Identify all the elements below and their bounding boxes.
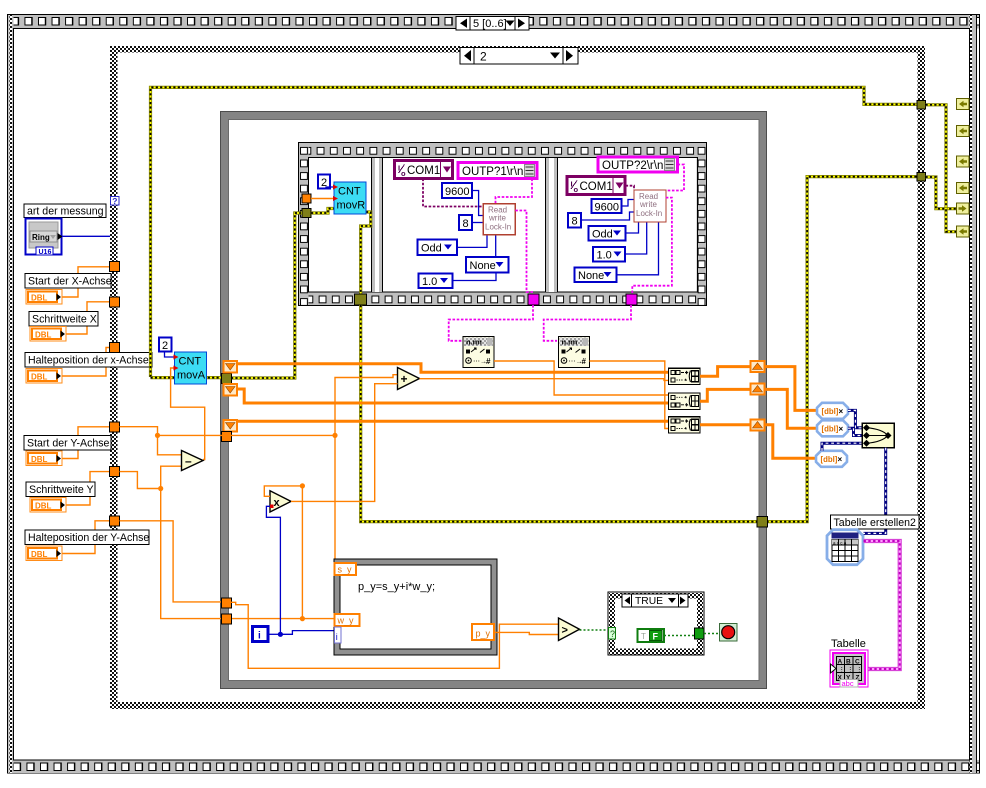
tunnel: boolean (TRUE case right border) <box>695 628 705 639</box>
wire: w_y branch to multiply input <box>264 486 302 496</box>
wire: Schrittweite Y down to w_y tunnel <box>161 489 222 619</box>
error wire: loop tunnel to flat sequence <box>231 213 302 378</box>
tunnel: string (flat seq bottom, frame 3) <box>626 294 637 305</box>
sequence local 6 <box>957 226 970 237</box>
wire: COM1 to subVI (VISA, frame 3) <box>626 186 635 190</box>
control: Start der X-Achse (DBL) <box>26 290 62 305</box>
ring constant 1.0 (frame 2) <box>419 274 453 289</box>
ring constant None (frame 2) <box>466 257 509 273</box>
svg-text:8: 8 <box>463 218 469 230</box>
tunnel: Halteposition Y (case border) <box>110 516 120 526</box>
wire: OUTP?2 to subVI (string, frame 3) <box>652 165 684 193</box>
constant 2 (before CNT movA) <box>159 338 172 353</box>
wire: build array 1 to right SR (thick) <box>700 367 751 377</box>
subVI: Read write Lock-In (frame 3) <box>634 190 666 222</box>
wire: SR2 out to convert 2 (thick) <box>765 389 818 428</box>
ring constant Odd (frame 2) <box>418 240 458 256</box>
svg-text:CNT: CNT <box>338 186 361 198</box>
svg-text:#: # <box>486 357 491 366</box>
wire: SR2 to build array 2 (thick) <box>237 389 669 403</box>
subVI: CNT movR <box>333 182 366 214</box>
svg-text:abc: abc <box>842 679 854 688</box>
VISA resource COM1 (frame 3) <box>567 177 625 195</box>
dynamic wire: convert 2 to merge <box>848 428 862 435</box>
wire: 8 to subVI (frame 3) <box>581 212 634 220</box>
svg-text:#: # <box>582 357 587 366</box>
subVI: CNT movA <box>174 352 207 384</box>
svg-text:TRUE: TRUE <box>635 596 663 607</box>
build array 1 <box>669 368 701 384</box>
svg-text:2: 2 <box>480 50 487 64</box>
tunnel: error (case right border, lower) <box>917 173 926 182</box>
error wire: CNT movR to bottom tunnel <box>361 212 371 296</box>
tunnel: Schrittweite X (case border) <box>110 297 120 307</box>
svg-text:CNT: CNT <box>179 356 202 368</box>
boolean constant F <box>638 629 665 642</box>
label: Tabelle erstellen2 <box>831 515 920 529</box>
control: Schrittweite X (DBL) <box>30 327 66 342</box>
sequence local 3 <box>957 156 970 167</box>
svg-text:DBL: DBL <box>35 331 52 340</box>
constant 2 (frame 1) <box>318 175 330 190</box>
dynamic wire: convert 1 to merge <box>848 410 862 427</box>
svg-text:⋯→: ⋯→ <box>569 359 583 366</box>
indicator: Tabelle (table) <box>830 650 868 688</box>
svg-text:2: 2 <box>162 340 168 352</box>
wire: 9600 to subVI (frame 3) <box>622 200 635 207</box>
svg-text:[dbl]: [dbl] <box>822 425 839 434</box>
svg-text:OUTP?1\r\n: OUTP?1\r\n <box>462 166 523 178</box>
svg-text:1.0: 1.0 <box>422 276 437 288</box>
tunnel: error (flat seq bottom border) <box>355 294 367 305</box>
merge signals node <box>862 423 894 448</box>
wire: SR3 to build array 3 (thick) <box>237 420 669 423</box>
svg-text:9600: 9600 <box>445 186 469 198</box>
control: Halteposition Y (DBL) <box>26 546 62 561</box>
svg-text:8: 8 <box>572 216 578 228</box>
ring constant None (frame 3) <box>575 268 617 283</box>
control label: Schrittweite Y <box>26 482 95 497</box>
wire: i to multiply and formula <box>266 506 335 637</box>
svg-text:movA: movA <box>177 370 206 382</box>
error wire: case tunnel 2 to sequence local 6 <box>926 177 958 232</box>
stop conditional terminal <box>720 624 738 642</box>
svg-text:U16: U16 <box>39 249 52 256</box>
svg-text:movR: movR <box>337 200 366 212</box>
case selector terminal ? <box>111 196 120 206</box>
wire: 2 to CNT movA <box>165 352 175 358</box>
svg-text:×: × <box>839 425 844 434</box>
svg-text:write: write <box>639 200 657 209</box>
wire: None to subVI (frame 2) <box>495 235 497 257</box>
svg-text:Odd: Odd <box>421 243 442 255</box>
tunnel: Start Y (case border) <box>110 422 120 432</box>
error wire: tunnel to CNT movR <box>311 209 334 214</box>
control label: Halteposition der x-Achse <box>25 353 152 368</box>
wire: Start Y tunnel into loop <box>120 427 336 436</box>
svg-text:COM1: COM1 <box>407 165 440 177</box>
svg-text:o: o <box>401 169 406 178</box>
wire: Halteposition x to tunnel <box>62 348 110 377</box>
tunnel: Start Y (loop left border) <box>222 432 232 442</box>
wire: 1.0 to subVI (frame 3) <box>625 222 647 254</box>
format node 2 (Fract/Exp String To Number) <box>559 337 590 368</box>
error wire: case to loop (left/top run) <box>151 87 918 377</box>
boolean wire: constant to tunnel <box>664 635 695 637</box>
wire: branch up to add input <box>335 375 398 436</box>
svg-text:Halteposition der x-Achse: Halteposition der x-Achse <box>28 355 149 367</box>
control label: Schrittweite X <box>29 312 98 327</box>
numeric constant 8 (frame 2) <box>459 215 472 230</box>
error wire: flat sequence bottom to loop right tunnel <box>361 305 758 522</box>
ring constant 1.0 (frame 3) <box>593 247 625 262</box>
svg-text:x: x <box>274 497 281 509</box>
svg-text:Schrittweite X: Schrittweite X <box>32 314 97 326</box>
convert to dynamic data 3 <box>816 451 847 467</box>
wire: w_y line tunnel B to formula <box>231 618 335 620</box>
svg-text:Schrittweite Y: Schrittweite Y <box>29 484 94 496</box>
svg-text:[dbl]: [dbl] <box>822 407 839 416</box>
sequence local 1 <box>957 99 970 110</box>
svg-text:DBL: DBL <box>35 502 52 511</box>
shift register left 1 <box>224 361 238 373</box>
wire: tunnel to CNT movR input <box>311 198 334 200</box>
svg-text:n.nn: n.nn <box>562 338 578 347</box>
wire: tunnel A to comparator (bottom run) <box>231 602 559 668</box>
svg-text:T: T <box>641 632 646 641</box>
svg-text:⋮: ⋮ <box>847 667 854 674</box>
case selector label "2" <box>460 48 578 65</box>
sequence local 2 <box>957 126 970 137</box>
wire: COM1 to subVI (VISA, frame 2) <box>423 179 483 207</box>
svg-text:C: C <box>855 659 860 666</box>
wire: branch down to s_y <box>334 435 336 563</box>
formula terminal w_y <box>335 614 360 626</box>
format node 1 (Fract/Exp String To Number) <box>463 337 494 368</box>
control label: Start der Y-Achse <box>24 436 111 451</box>
svg-text:DBL: DBL <box>31 294 48 303</box>
wire: build array 3 to right SR (thick) <box>700 423 751 426</box>
comparator greater-than <box>559 618 580 641</box>
numeric constant 9600 (frame 2) <box>442 183 472 198</box>
case structure (selector = 2) <box>110 46 925 709</box>
formula terminal s_y <box>335 563 357 575</box>
wire: vertical w_y riser <box>301 486 303 619</box>
build array 3 <box>669 417 701 433</box>
shift register right 1 <box>751 361 765 372</box>
wire: format node 1 out to build array 2 <box>494 361 669 395</box>
wire: SR1 out to convert 1 (thick) <box>765 367 818 411</box>
wire: Schrittweite X to tunnel <box>66 302 110 334</box>
dynamic wire: convert 3 to merge <box>822 443 862 451</box>
svg-text:o: o <box>574 185 579 194</box>
wire: Start X to tunnel <box>62 267 110 297</box>
wire: Start Y to tunnel <box>62 427 110 459</box>
wire: format node 2 out to build array 3 <box>590 361 669 429</box>
svg-text:>: > <box>562 625 568 637</box>
wire: subtract out to CNT movA <box>171 368 205 460</box>
svg-text:Halteposition der Y-Achse: Halteposition der Y-Achse <box>28 532 149 544</box>
svg-text:None: None <box>578 270 604 282</box>
tunnel: string (flat seq bottom, frame 2) <box>528 294 539 305</box>
wire: add out to build array 1 (thin) <box>420 379 669 381</box>
junction dot <box>300 616 305 621</box>
wire: Odd to subVI (frame 3) <box>626 222 639 233</box>
svg-text:9600: 9600 <box>595 202 619 214</box>
shift register left 2 <box>224 384 238 396</box>
tunnel: error (flat seq left border) <box>302 209 311 218</box>
wire: ring to case border <box>62 235 110 237</box>
tunnel: Schrittweite Y (case border) <box>110 467 120 477</box>
sequence local 5 (out) <box>957 203 970 214</box>
tunnel: A Halteposition Y (loop left border) <box>222 598 232 608</box>
svg-text:art der messung: art der messung <box>27 206 104 218</box>
svg-text:DBL: DBL <box>31 373 48 382</box>
svg-text:Start der Y-Achse: Start der Y-Achse <box>27 438 110 450</box>
wire: 2 to CNT movR <box>326 187 334 189</box>
sequence selector label "5 [0..6]" <box>456 17 529 31</box>
wire: multiply out up to add <box>291 384 398 502</box>
shift register right 3 <box>751 420 765 431</box>
wire: subVI out to bottom tunnel (string, frame 3) <box>632 198 672 297</box>
tunnel: error (loop right border) <box>757 517 768 528</box>
multiply node <box>270 491 291 512</box>
wire: build array 2 to right SR (thick) <box>700 389 751 401</box>
flat sequence structure (3 frames) <box>299 143 707 306</box>
sequence local 4 <box>957 183 970 194</box>
svg-text:Lock-In: Lock-In <box>485 223 511 232</box>
svg-text:write: write <box>488 214 506 223</box>
wire: Schrittweite Y to tunnel <box>66 472 110 505</box>
svg-text:OUTP?2\r\n: OUTP?2\r\n <box>602 160 663 172</box>
formula terminal p_y <box>472 624 494 640</box>
svg-text:w_y: w_y <box>337 616 355 626</box>
case TRUE selector label <box>622 594 688 607</box>
wire: Halteposition Y across to loop tunnel A <box>120 521 223 602</box>
numeric constant 8 (frame 3) <box>568 213 581 228</box>
wire: subVI out to bottom tunnel (string, frame 2) <box>515 211 533 298</box>
svg-text:Odd: Odd <box>592 229 613 241</box>
wire: OUTP?1 to subVI (string, frame 2) <box>496 179 533 204</box>
subVI: Read write Lock-In (frame 2) <box>483 204 515 235</box>
junction dot <box>300 483 305 488</box>
boolean wire: tunnel to stop terminal <box>704 633 720 635</box>
tunnel: B Schrittweite Y (loop left border) <box>222 614 232 624</box>
svg-text:None: None <box>470 260 496 272</box>
add node <box>398 368 420 390</box>
svg-text:s_y: s_y <box>338 565 353 575</box>
control label: art der messung <box>24 204 106 218</box>
express VI: Build Table <box>827 530 863 565</box>
string wire: tunnel to format node 1 <box>449 305 533 341</box>
svg-text:p_y: p_y <box>476 629 491 639</box>
svg-text:5 [0..6]: 5 [0..6] <box>473 18 507 30</box>
VISA resource COM1 (frame 2) <box>395 161 453 179</box>
wire: p_y to comparator <box>494 632 559 634</box>
wire: array SR1 to build array 1 (thick) <box>237 364 669 373</box>
wire: None to subVI (frame 3) <box>617 222 659 275</box>
control label: Halteposition der Y-Achse <box>25 530 149 545</box>
svg-text:⋯→: ⋯→ <box>473 359 487 366</box>
svg-text:⋮: ⋮ <box>839 667 846 674</box>
dynamic wire: merge to build table <box>864 448 886 534</box>
svg-text:?: ? <box>610 629 615 639</box>
convert to dynamic data 2 <box>817 420 848 436</box>
control: Schrittweite Y (DBL) <box>30 498 66 513</box>
svg-text:a c c a: a c c a <box>833 541 847 546</box>
svg-text:COM1: COM1 <box>580 181 613 193</box>
wire: to subtract input 2 <box>161 466 182 488</box>
string constant OUTP?2\r\n (frame 3) <box>598 157 678 172</box>
string constant OUTP?1\r\n (frame 2) <box>458 163 537 179</box>
build array 2 <box>669 393 701 409</box>
formula terminal i <box>335 627 342 643</box>
svg-text:Ring: Ring <box>32 233 50 242</box>
junction dot <box>158 486 163 491</box>
svg-text:p_y=s_y+i*w_y;: p_y=s_y+i*w_y; <box>358 581 435 593</box>
svg-text:Start der X-Achse: Start der X-Achse <box>28 276 112 288</box>
svg-text:×: × <box>838 455 843 464</box>
wire: 1.0 to subVI (frame 2) <box>453 273 497 281</box>
shift register left 3 <box>224 420 238 432</box>
error wire: case tunnel 1 to sequence local 5 <box>926 105 958 209</box>
numeric constant 9600 (frame 3) <box>592 199 622 214</box>
tunnel: Halteposition x (case border) <box>110 343 120 353</box>
junction dot <box>155 433 160 438</box>
junction dot: startY branch <box>332 433 337 438</box>
tunnel: error (case right border, upper) <box>917 101 926 110</box>
tunnel: error (loop left border) <box>222 374 232 384</box>
wire: to subtract input 1 <box>158 435 182 454</box>
table wire: build table to Tabelle <box>864 541 900 669</box>
svg-text:–: – <box>185 454 192 468</box>
svg-text:+: + <box>401 372 408 386</box>
svg-text:i: i <box>336 632 338 642</box>
string wire: tunnel to format node 2 <box>544 305 631 341</box>
error wire: loop right tunnel to case tunnel <box>767 177 918 522</box>
wire: 8 to subVI (frame 2) <box>472 222 483 224</box>
case TRUE selector terminal ? <box>609 628 616 640</box>
wire: 9600 to subVI (frame 2) <box>472 191 483 216</box>
control: art der messung (Ring U16) <box>26 219 63 256</box>
convert to dynamic data 1 <box>817 403 848 419</box>
svg-text:1.0: 1.0 <box>597 250 612 262</box>
svg-text:Tabelle erstellen2: Tabelle erstellen2 <box>834 517 917 529</box>
ring constant Odd (frame 3) <box>589 226 626 241</box>
tunnel: Start X (case border) <box>110 262 120 272</box>
control: Start der Y-Achse (DBL) <box>26 451 62 466</box>
iteration terminal i <box>253 627 269 642</box>
svg-text:[dbl]: [dbl] <box>821 455 838 464</box>
svg-text:n.nn: n.nn <box>466 338 482 347</box>
while loop (gray border) <box>221 112 767 689</box>
svg-text:i: i <box>258 631 261 642</box>
svg-text:DBL: DBL <box>31 550 48 559</box>
control: Halteposition x (DBL) <box>26 369 62 384</box>
svg-text:B: B <box>846 659 851 666</box>
svg-text:DBL: DBL <box>31 455 48 464</box>
formula node <box>334 559 497 655</box>
shift register right 2 <box>751 384 765 395</box>
wire: Odd to subVI (frame 2) <box>457 235 487 248</box>
wire: SR3 out to convert 3 (thick) <box>765 425 817 459</box>
boolean wire: comparator to TRUE case <box>580 629 609 631</box>
svg-text:Tabelle: Tabelle <box>831 638 866 650</box>
svg-text:F: F <box>653 632 659 642</box>
case structure TRUE (inner) <box>608 592 704 655</box>
svg-text:Lock-In: Lock-In <box>636 209 662 218</box>
control label: Start der X-Achse <box>25 274 112 289</box>
wire: Schrittweite Y tunnel into loop <box>120 472 161 489</box>
svg-text:A: A <box>838 659 843 666</box>
svg-text:⋮: ⋮ <box>856 667 863 674</box>
wire: Halteposition Y to tunnel <box>62 521 110 554</box>
subtract node <box>182 451 204 471</box>
tunnel: orange (flat seq left border) <box>302 194 311 203</box>
svg-text:×: × <box>839 407 844 416</box>
svg-text:?: ? <box>112 196 117 206</box>
